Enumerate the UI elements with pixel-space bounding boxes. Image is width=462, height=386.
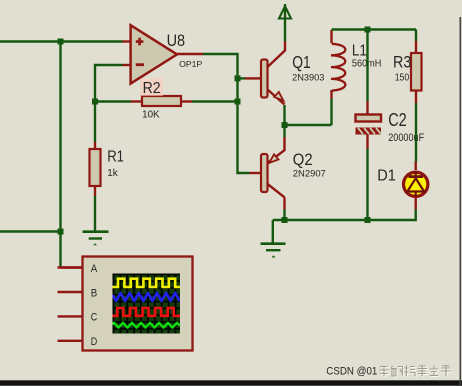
node junction at (237.5,78.4) [235,75,241,81]
svg-text:D1: D1 [377,167,396,184]
capacitor C2 [356,101,382,149]
watermark CJK glyphs [379,366,451,377]
node junction at (367.5,220) [365,217,371,223]
oscilloscope body [83,257,193,351]
svg-text:150: 150 [395,73,410,84]
wire: R2 right to output node [192,100,238,102]
svg-text:R3: R3 [393,53,411,72]
pin D stub [58,340,83,342]
wire: to Q1 base [238,77,246,79]
transistor Q1 [261,60,285,105]
resistor R3 [411,30,422,104]
waveform red (ch C) [113,308,181,316]
wire: down to C2 [366,30,368,102]
wire: Q1 collector [268,41,286,67]
svg-text:Q2: Q2 [293,150,313,169]
wire: Q2 base stub [250,172,262,174]
resistor R2 [131,96,192,106]
op-amp U8 [131,25,177,83]
wire: C2 to rail [366,149,368,221]
waveform green (ch D) [113,323,181,328]
wire: emitter node to L1 [285,124,332,126]
transistor Q2 [261,154,285,197]
wire: vertical feedback rail x=60.5 [59,42,61,268]
ground (bottom) [261,244,286,258]
svg-text:1k: 1k [107,167,118,179]
node junction at (284.5,220) [282,217,288,223]
svg-text:10K: 10K [142,110,160,121]
wire: Q1 emitter down to node [283,105,285,125]
resistor R1 [90,102,101,197]
inductor L1 [331,30,345,125]
pin B stub [58,291,83,293]
svg-text:CSDN @01: CSDN @01 [326,366,377,378]
power arrow (VCC) [279,4,291,41]
op-amp U8 pin - stub [123,64,131,66]
svg-text:R1: R1 [107,148,124,165]
svg-text:D: D [91,336,98,348]
pin A stub [58,266,83,268]
svg-text:2N2907: 2N2907 [293,169,326,180]
node junction at (95,101.5) [92,99,98,105]
wire: Q2 collector to rail [283,197,285,209]
watermark CSDN [326,366,377,378]
wire: left input to op-amp + [0,40,123,42]
wire: D1 to rail corner [273,210,416,221]
node junction at (284.5,125) [282,122,288,128]
node junction at (237.5,101.5) [235,99,241,105]
label R2 (highlighted) [141,78,163,97]
svg-text:C2: C2 [388,110,407,130]
wire: inverting input [95,65,123,102]
wire: scope A pin connection [61,266,83,268]
scope screen [113,274,181,334]
wire: left edge horizontal at y=231.5 [0,230,61,232]
wire: R3 to D1 [415,103,417,162]
svg-text:U8: U8 [167,31,186,50]
node junction at (60.5,41.5) [58,39,64,45]
wire: top rail [332,28,417,30]
wire: op-amp output [177,53,203,55]
ground (below R1) [83,232,109,246]
node junction at (60.5,231.5) [58,229,64,235]
wire: R1 to ground [94,196,96,231]
op-amp U8 pin + stub [123,40,131,42]
svg-text:B: B [91,287,98,299]
svg-text:A: A [91,263,98,275]
bottom border band [0,380,462,385]
pin C stub [58,315,83,317]
svg-text:R2: R2 [143,80,161,97]
wire: Q2 emitter up to node [283,125,285,137]
svg-text:C: C [91,312,98,324]
LED D1 [404,162,428,210]
wire: R2 left [95,100,131,102]
right border line [460,17,462,386]
waveform blue (ch B) [113,293,180,301]
svg-text:OP1P: OP1P [179,60,202,69]
svg-text:20000uF: 20000uF [388,132,424,144]
wire: rail to ground [272,220,274,243]
node junction at (367.5,29.5) [365,27,371,33]
waveform yellow (ch A) [113,279,181,287]
svg-text:2N3903: 2N3903 [292,72,324,83]
svg-text:Q1: Q1 [292,52,311,72]
watermark CJK glyph highlights [380,366,452,377]
